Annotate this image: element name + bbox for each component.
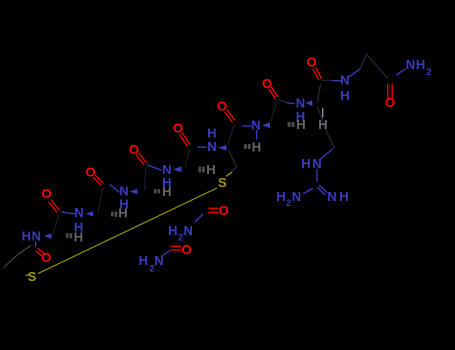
svg-text:O: O [385, 95, 395, 110]
svg-text:N: N [251, 117, 260, 132]
svg-text:H: H [318, 117, 327, 132]
svg-text:H: H [74, 230, 83, 245]
svg-text:2: 2 [178, 232, 183, 242]
svg-text:O: O [306, 55, 316, 70]
svg-text:O: O [85, 165, 95, 180]
svg-text:N: N [32, 229, 41, 244]
svg-text:N: N [406, 57, 415, 72]
svg-text:N: N [74, 205, 83, 220]
svg-text:N: N [340, 73, 349, 88]
svg-text:H: H [276, 189, 285, 204]
svg-text:N: N [207, 139, 216, 154]
svg-text:H: H [168, 223, 177, 238]
svg-text:O: O [262, 76, 272, 91]
svg-text:H: H [340, 88, 349, 103]
svg-text:O: O [173, 121, 183, 136]
svg-text:H: H [416, 57, 425, 72]
svg-text:2: 2 [286, 198, 291, 208]
svg-text:O: O [41, 250, 51, 265]
svg-text:O: O [181, 242, 191, 257]
svg-text:O: O [42, 186, 52, 201]
svg-text:H: H [162, 184, 171, 199]
svg-text:S: S [28, 269, 37, 284]
svg-text:H: H [301, 156, 310, 171]
svg-text:O: O [219, 203, 229, 218]
svg-text:N: N [312, 156, 321, 171]
svg-text:H: H [252, 139, 261, 154]
svg-text:N: N [184, 223, 193, 238]
svg-text:2: 2 [426, 67, 431, 77]
svg-text:H: H [139, 253, 148, 268]
svg-text:H: H [22, 229, 31, 244]
svg-text:N: N [327, 189, 336, 204]
svg-text:H: H [118, 206, 127, 221]
svg-text:N: N [292, 189, 301, 204]
svg-text:H: H [296, 117, 305, 132]
svg-text:H: H [206, 162, 215, 177]
svg-text:N: N [154, 253, 163, 268]
svg-text:O: O [129, 142, 139, 157]
svg-text:H: H [339, 189, 348, 204]
svg-text:S: S [218, 175, 227, 190]
svg-text:O: O [217, 99, 227, 114]
